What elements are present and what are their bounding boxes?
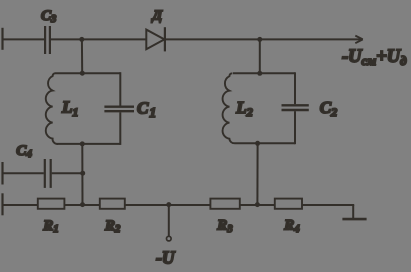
svg-text:R1: R1: [42, 218, 58, 235]
resistor R3: [210, 199, 239, 209]
inductor L2: [223, 73, 235, 143]
resistor R2: [100, 199, 125, 209]
node: tank1 bottom junction dot: [80, 141, 85, 146]
wire: R2 to R3: [125, 204, 211, 206]
node: tank2 bottom junction dot: [255, 141, 260, 146]
wire: R1 to R2: [64, 204, 99, 206]
node: tank2 bottom trunk junction dot: [255, 202, 260, 207]
wire: C2 bottom plate to tank2 bottom rail: [294, 111, 296, 144]
capacitor C1: [104, 107, 134, 112]
svg-text:-Uсм+Uд: -Uсм+Uд: [342, 47, 407, 68]
svg-text:C4: C4: [16, 143, 32, 160]
ground: [342, 205, 366, 219]
svg-text:C2: C2: [320, 98, 337, 119]
terminal tick bottom-left: [1, 193, 3, 215]
svg-text:-U: -U: [156, 248, 176, 268]
resistor R1: [38, 199, 65, 209]
wire: tank2 bottom rail: [235, 142, 296, 144]
svg-text:Д: Д: [151, 9, 163, 24]
resistor R4: [275, 199, 302, 209]
svg-text:L1: L1: [61, 98, 78, 119]
node: C4 junction dot: [80, 171, 85, 176]
wire: tank2 top rail to C2 top plate: [294, 72, 296, 104]
wire: tank1 top rail to C1 top plate: [119, 72, 121, 105]
svg-text:R3: R3: [216, 218, 232, 235]
diode D (Д): [146, 27, 165, 51]
svg-text:R2: R2: [104, 218, 121, 235]
node: tank1 top junction dot: [80, 71, 85, 76]
wire: C4 terminal to C4: [2, 172, 44, 174]
wire: tank1 bottom rail: [57, 143, 121, 145]
wire: tank1 bottom down to resistor row: [81, 144, 83, 205]
capacitor C4: [45, 159, 51, 188]
wire: diode cathode to arrow: [166, 38, 362, 40]
capacitor C2: [282, 105, 309, 110]
node A junction dot (top wire / tank1 branch): [79, 37, 84, 42]
arrow head of output lead: [355, 36, 363, 44]
node: -U tap junction dot: [166, 202, 171, 207]
wire: C4 to trunk: [52, 172, 82, 174]
wire: C3 to diode anode: [51, 38, 146, 40]
wire: tank1 top rail: [56, 72, 121, 74]
svg-text:C3: C3: [41, 8, 56, 25]
node: resistor row junction dot (trunk): [80, 202, 85, 207]
wire: R4 to ground: [302, 204, 354, 206]
wire: R3 to R4: [240, 204, 275, 206]
wire: C1 bottom plate to tank1 bottom rail: [119, 112, 121, 144]
wire: left terminal to C3: [2, 38, 44, 40]
terminal tick for C4 input: [1, 162, 3, 185]
wire: node A down to tank1 top: [81, 39, 83, 73]
wire: tank2 top rail: [233, 72, 295, 74]
inductor L1: [46, 73, 58, 144]
svg-text:L2: L2: [235, 98, 252, 119]
input terminal tick top-left: [1, 28, 3, 50]
svg-text:C1: C1: [137, 99, 156, 120]
svg-text:R4: R4: [283, 218, 299, 235]
wire: bottom terminal to R1: [2, 204, 38, 206]
node B junction dot (top wire / tank2 branch): [257, 37, 262, 42]
-U terminal circle: [167, 236, 172, 241]
node: tank2 top junction dot: [257, 71, 262, 76]
capacitor C3: [45, 26, 50, 54]
wire: node B down to tank2 top: [259, 39, 261, 73]
wire: tank2 bottom down to resistor row: [256, 143, 258, 205]
wire: tap down to -U terminal: [168, 205, 170, 236]
